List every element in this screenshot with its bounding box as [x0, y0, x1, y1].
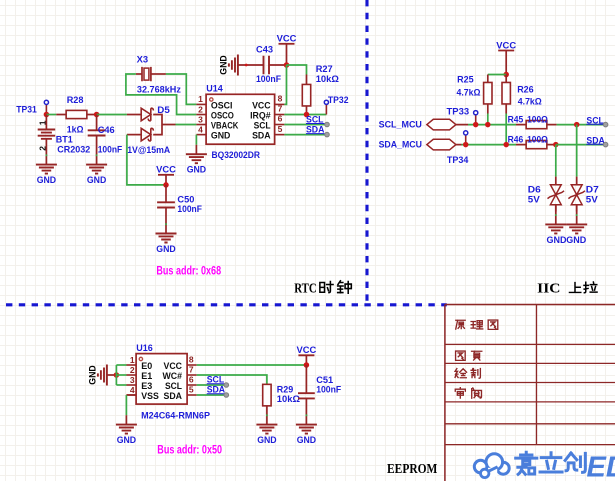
- svg-text:GND: GND: [211, 130, 231, 141]
- svg-text:8: 8: [189, 354, 194, 364]
- ground under D7: [566, 224, 587, 245]
- svg-text:GND: GND: [257, 435, 277, 446]
- port SCL_MCU: [379, 119, 468, 130]
- resistor R45 100: [508, 115, 557, 129]
- wire U14 pin4 to ground: [195, 135, 197, 145]
- resistor R25 4.7k: [457, 74, 493, 124]
- title row schematic: [456, 320, 465, 329]
- svg-text:6: 6: [278, 114, 283, 124]
- node R46/D6 junction: [553, 142, 559, 148]
- resistor R46 100: [508, 135, 557, 149]
- svg-text:GND: GND: [87, 175, 107, 186]
- wire D5 output to U14 pin3 VBACK: [176, 124, 197, 126]
- wire SDA_MCU to R46: [462, 144, 517, 146]
- wire U16 pin7 WC to R29: [197, 375, 267, 384]
- wire VCC node to R25: [488, 74, 506, 76]
- memory IC U16 M24C64: [127, 343, 211, 422]
- svg-text:SDA_MCU: SDA_MCU: [379, 140, 422, 151]
- svg-text:5V: 5V: [586, 195, 599, 206]
- wire U14 pin7 IRQ to TP32: [284, 114, 326, 116]
- svg-text:2: 2: [198, 104, 203, 114]
- resistor R27 10k: [302, 64, 339, 114]
- logo JLC cloud: [474, 454, 509, 478]
- wire R46 to SDA port: [556, 144, 605, 146]
- node VCC/C43/R27 junction: [284, 62, 290, 68]
- svg-text:TP32: TP32: [328, 95, 349, 106]
- wire crystal left to U14 pin2 OSCO: [126, 74, 196, 115]
- test point TP31: [45, 104, 47, 114]
- wire SCL junction down to D7: [576, 125, 578, 177]
- svg-text:X3: X3: [137, 54, 149, 65]
- ground under R29: [256, 425, 277, 446]
- svg-text:GND: GND: [156, 244, 176, 255]
- node U16 E-pins junction: [114, 372, 120, 378]
- svg-text:GND: GND: [117, 435, 137, 446]
- svg-text:1V@15mA: 1V@15mA: [127, 145, 170, 156]
- svg-text:8: 8: [278, 94, 283, 104]
- test point TP34: [447, 131, 469, 166]
- svg-text:VCC: VCC: [156, 165, 176, 176]
- power VCC IIC: [496, 40, 516, 74]
- svg-text:4.7kΩ: 4.7kΩ: [518, 96, 542, 107]
- wire D7 to ground: [576, 205, 578, 225]
- wire ground to U16 E pins: [107, 374, 117, 376]
- wire D5 bottom anode to VCC node: [127, 135, 166, 185]
- title row drawn: [455, 369, 466, 378]
- svg-text:VCC: VCC: [277, 34, 297, 45]
- svg-text:C46: C46: [98, 125, 115, 136]
- node R28/C46/D5 junction: [94, 112, 100, 118]
- svg-text:RTC: RTC: [294, 281, 317, 296]
- svg-text:7: 7: [278, 104, 283, 114]
- svg-text:SDA: SDA: [252, 130, 271, 141]
- svg-text:SCL_MCU: SCL_MCU: [379, 120, 422, 131]
- svg-text:ED: ED: [587, 452, 615, 481]
- ground under BT1: [36, 165, 57, 186]
- svg-text:5: 5: [189, 384, 194, 394]
- resistor R26 4.7k: [502, 75, 542, 145]
- svg-text:5: 5: [278, 124, 283, 134]
- wire SCL_MCU to R45: [468, 124, 516, 126]
- svg-text:100nF: 100nF: [98, 145, 123, 156]
- svg-text:3: 3: [198, 114, 203, 124]
- node VCC/C50/D5 junction: [163, 182, 169, 188]
- svg-text:6: 6: [189, 374, 194, 384]
- svg-text:VCC: VCC: [297, 345, 317, 356]
- svg-text:Bus addr: 0x50: Bus addr: 0x50: [157, 445, 222, 457]
- node VCC/R25/R26 junction: [503, 72, 509, 78]
- net SDA right: [586, 135, 607, 147]
- svg-text:GND: GND: [218, 55, 229, 75]
- ground under D6: [545, 224, 566, 245]
- svg-text:GND: GND: [547, 235, 567, 246]
- svg-text:1: 1: [38, 120, 48, 125]
- node R27/pin7 junction: [304, 112, 310, 118]
- diode D6 TVS 5V: [528, 177, 564, 212]
- svg-text:TP33: TP33: [447, 107, 470, 118]
- node VCC/C51 junction: [304, 362, 310, 368]
- power VCC EEPROM: [297, 345, 317, 365]
- ground under C46: [86, 165, 107, 186]
- node TP31/BT1/R28 junction: [44, 112, 50, 118]
- svg-text:GND: GND: [37, 175, 57, 186]
- svg-text:4: 4: [130, 385, 135, 395]
- diode D7 TVS 5V: [568, 177, 598, 212]
- power VCC above C50: [156, 165, 176, 185]
- wire TP31 junction to R28: [46, 114, 56, 116]
- svg-text:R46: R46: [508, 135, 524, 146]
- svg-text:GND: GND: [87, 365, 98, 385]
- ground left of C43: [218, 55, 238, 76]
- svg-text:EEPROM: EEPROM: [387, 462, 437, 477]
- capacitor C46 100nF: [88, 115, 123, 165]
- wire VCC node to R27: [287, 65, 307, 75]
- svg-text:M24C64-RMN6P: M24C64-RMN6P: [141, 411, 211, 422]
- net SCL from U14 pin6: [284, 115, 329, 127]
- power VCC above C43: [277, 34, 297, 65]
- ground under C51: [296, 425, 317, 446]
- svg-text:R28: R28: [67, 95, 84, 106]
- ground at U14 pin4: [186, 154, 207, 175]
- svg-text:10kΩ: 10kΩ: [316, 74, 340, 85]
- wire R45 to SCL port: [557, 124, 606, 126]
- resistor R29 10k: [263, 384, 301, 424]
- svg-text:1: 1: [198, 94, 203, 104]
- svg-text:R45: R45: [508, 115, 524, 126]
- title block frame: [445, 305, 615, 481]
- svg-text:100Ω: 100Ω: [527, 115, 548, 126]
- section title RTC: [294, 281, 351, 297]
- svg-text:7: 7: [189, 364, 194, 374]
- node R26/SDA junction: [503, 142, 509, 148]
- svg-text:3: 3: [130, 375, 135, 385]
- op IC U14 BQ32002DR: [196, 83, 284, 161]
- svg-text:TP34: TP34: [447, 155, 469, 166]
- svg-text:TP31: TP31: [16, 104, 37, 115]
- net SDA from U16 pin5: [197, 385, 229, 398]
- capacitor C50 100nF: [157, 185, 202, 234]
- net SCL right: [586, 115, 607, 127]
- wire tying U16 pins 1-3: [116, 365, 126, 385]
- svg-text:R25: R25: [457, 74, 474, 85]
- wire VCC node to U14 pin8: [284, 65, 286, 104]
- wire R28 junction to D5 anode: [97, 114, 127, 116]
- svg-text:2: 2: [38, 146, 48, 151]
- test point TP32: [324, 95, 348, 114]
- svg-text:100nF: 100nF: [316, 384, 341, 395]
- svg-text:4: 4: [198, 124, 203, 134]
- test point TP33: [447, 107, 478, 125]
- node R25/SCL junction: [485, 122, 491, 128]
- wire SDA junction down to D6: [555, 145, 557, 177]
- svg-text:C43: C43: [256, 45, 273, 56]
- node TP33 junction: [473, 122, 479, 128]
- svg-text:VCC: VCC: [496, 40, 516, 51]
- wire U16 pin4 VSS to ground: [126, 394, 136, 396]
- svg-text:R26: R26: [517, 84, 534, 95]
- dashed section divider horizontal: [0, 303, 447, 306]
- capacitor C51 100nF: [298, 365, 341, 425]
- wire crystal right to U14 pin1 OSCI: [166, 74, 197, 104]
- ground under C50: [156, 234, 177, 255]
- svg-text:GND: GND: [187, 165, 207, 176]
- svg-text:100nF: 100nF: [256, 74, 281, 85]
- svg-text:VSS: VSS: [141, 391, 159, 402]
- svg-text:SDA: SDA: [164, 391, 183, 402]
- ground left of U16: [87, 365, 107, 386]
- svg-text:10kΩ: 10kΩ: [277, 394, 301, 405]
- diode D5 dual schottky: [127, 105, 176, 156]
- wire U16 pin8 to VCC: [197, 364, 307, 366]
- svg-text:100nF: 100nF: [177, 204, 202, 215]
- svg-text:D5: D5: [157, 105, 170, 116]
- port SDA_MCU: [379, 139, 462, 150]
- node TP34 junction: [463, 142, 469, 148]
- svg-text:2: 2: [130, 365, 135, 375]
- svg-text:32.768kHz: 32.768kHz: [137, 85, 181, 96]
- svg-text:GND: GND: [297, 435, 317, 446]
- svg-text:5V: 5V: [528, 195, 541, 206]
- ground under U16 VSS: [116, 425, 137, 446]
- dashed section divider vertical: [365, 0, 368, 305]
- svg-text:Bus addr: 0x68: Bus addr: 0x68: [156, 265, 221, 277]
- net SCL from U16 pin6: [197, 375, 229, 388]
- svg-text:1: 1: [130, 355, 135, 365]
- svg-text:4.7kΩ: 4.7kΩ: [457, 87, 481, 98]
- logo text jialichuang: [516, 452, 615, 481]
- section title IIC: [537, 281, 597, 296]
- capacitor C43 100nF: [238, 45, 287, 85]
- node SCL/D7 junction: [574, 122, 580, 128]
- svg-text:GND: GND: [566, 235, 586, 246]
- svg-text:BQ32002DR: BQ32002DR: [212, 150, 261, 161]
- title row sheet: [456, 351, 466, 360]
- resistor R28 1k: [56, 95, 96, 136]
- svg-text:U14: U14: [206, 83, 223, 94]
- title row reviewed: [455, 388, 465, 398]
- net SDA from U14 pin5: [284, 125, 329, 137]
- wire D6 to ground: [555, 205, 557, 225]
- battery BT1 CR2032: [38, 115, 91, 165]
- svg-text:IIC: IIC: [537, 281, 560, 296]
- svg-text:U16: U16: [136, 343, 153, 354]
- svg-text:CR2032: CR2032: [57, 145, 90, 156]
- crystal X3 32.768kHz: [136, 54, 181, 95]
- svg-text:1kΩ: 1kΩ: [67, 125, 84, 136]
- svg-text:100Ω: 100Ω: [527, 135, 548, 146]
